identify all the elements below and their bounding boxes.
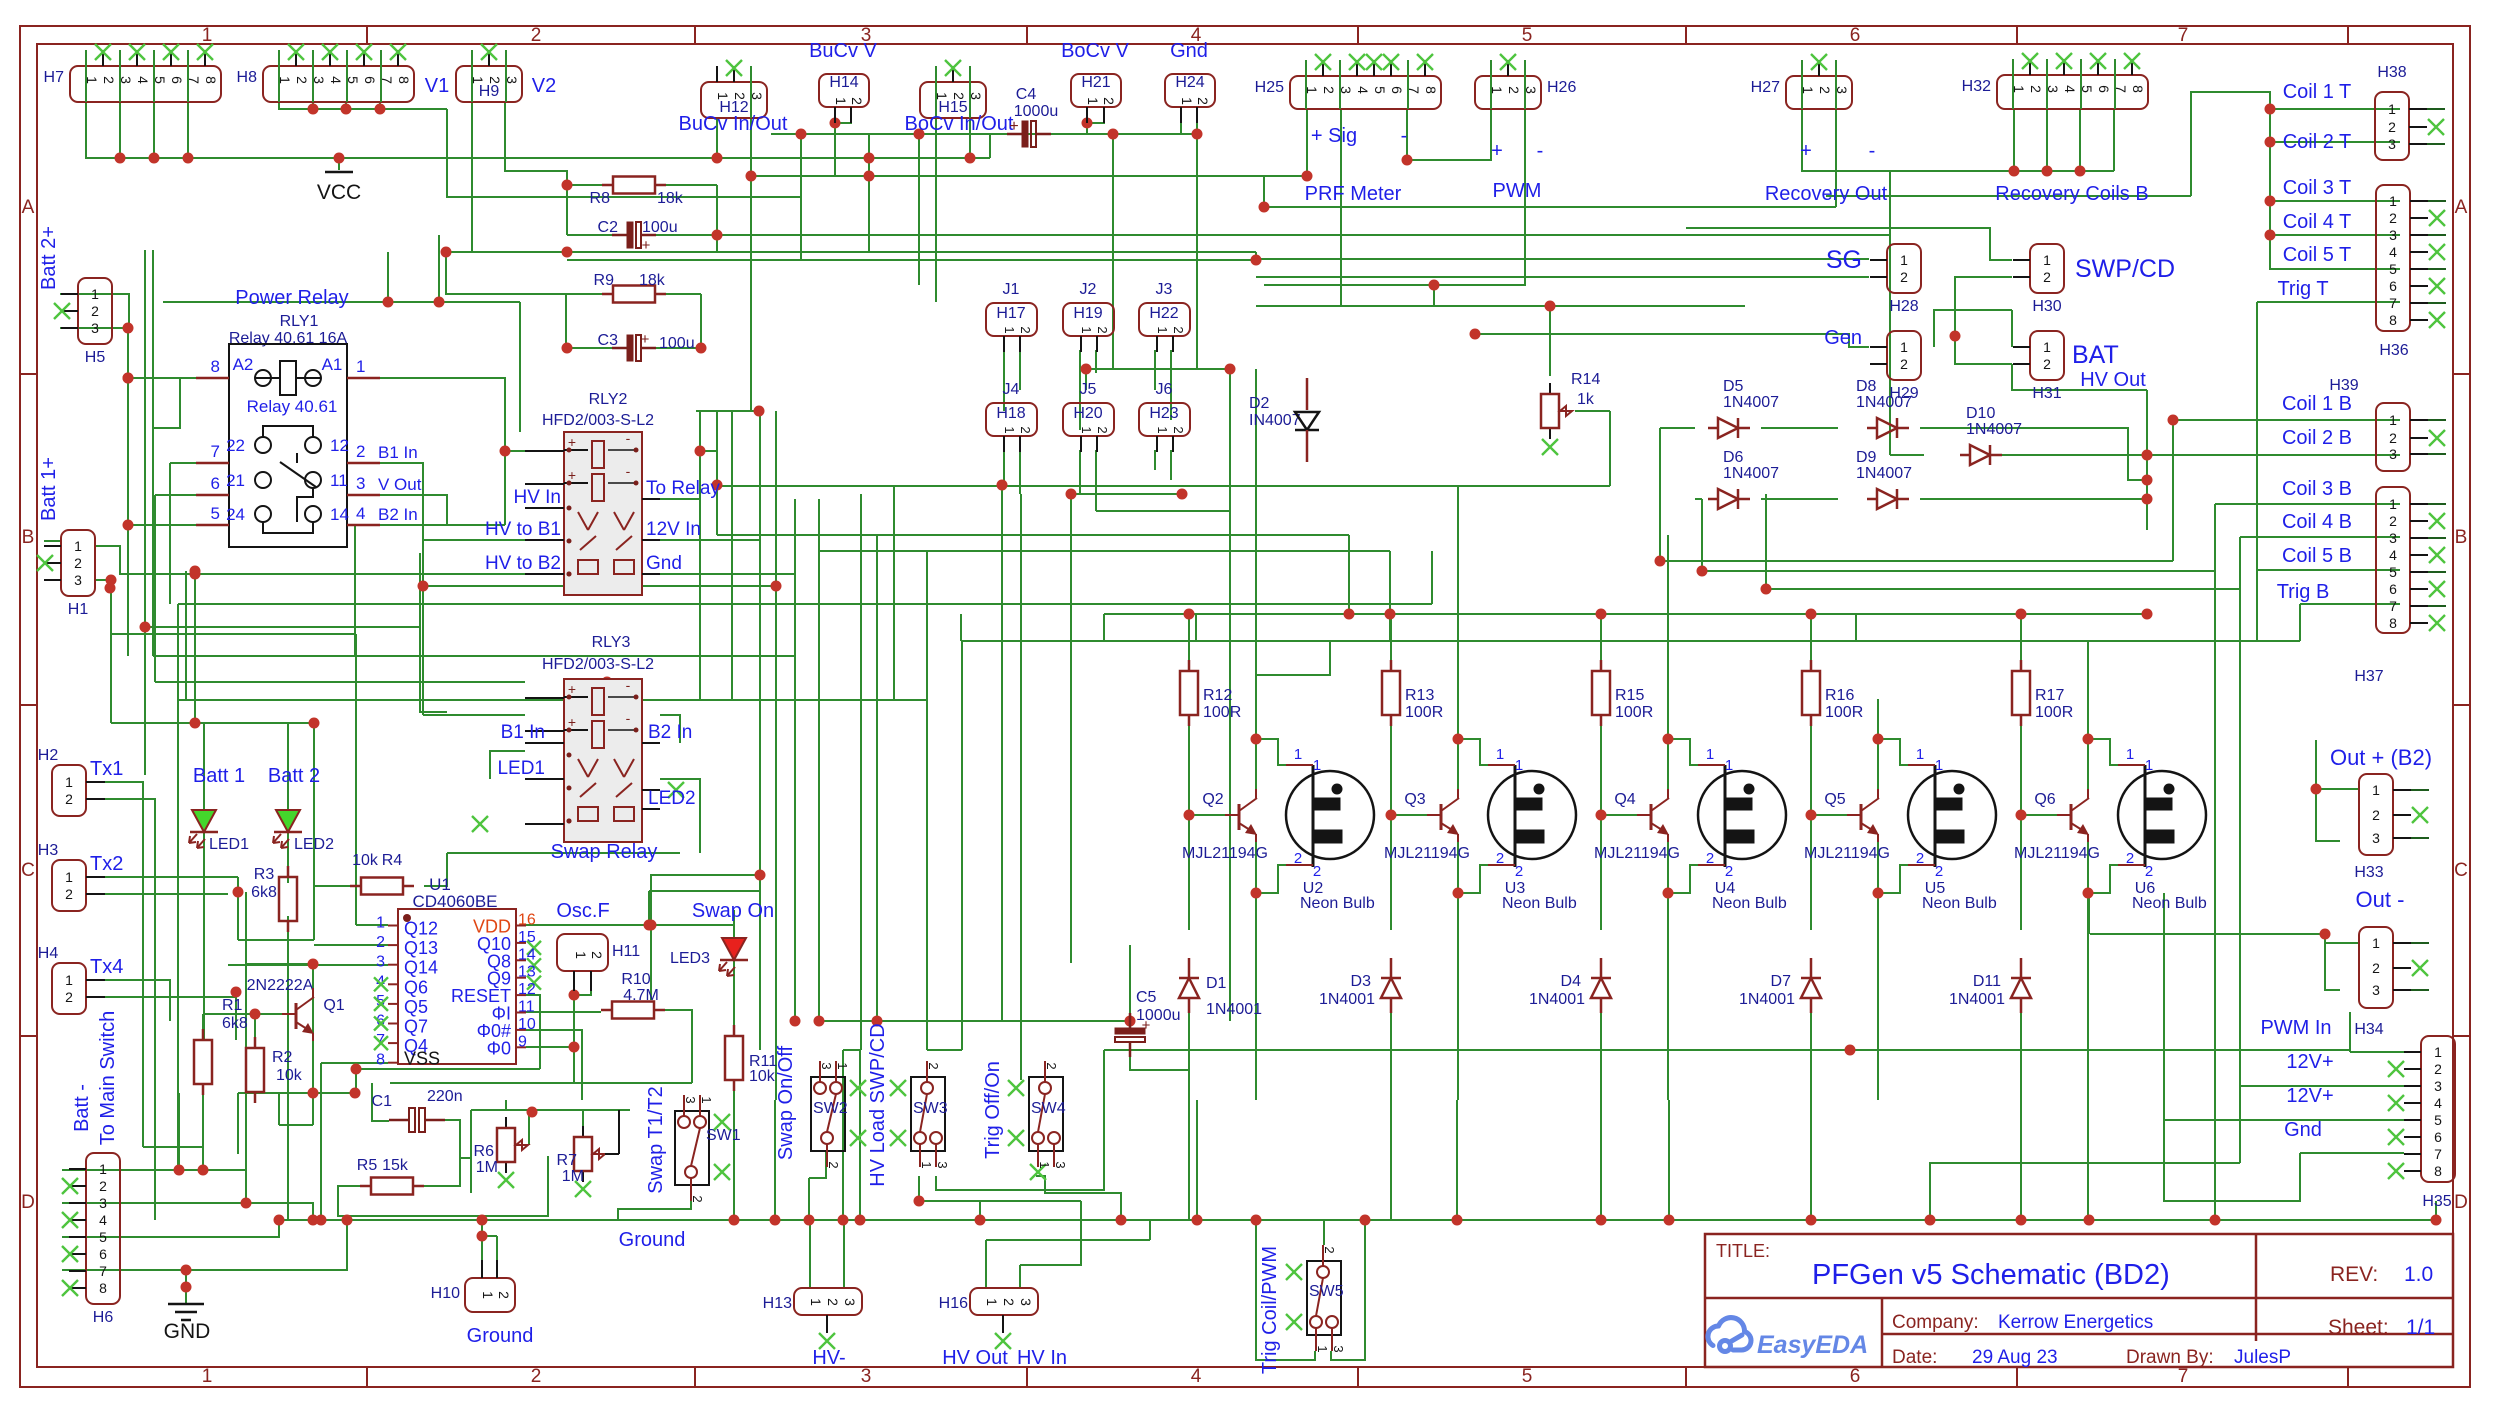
svg-text:Neon Bulb: Neon Bulb xyxy=(1300,895,1375,912)
svg-text:H2: H2 xyxy=(38,747,59,764)
svg-text:1: 1 xyxy=(1725,757,1733,774)
no-connect flag xyxy=(62,1178,78,1194)
wire xyxy=(1264,284,1526,286)
no-connect flag xyxy=(575,1181,591,1197)
wire xyxy=(235,992,237,1040)
svg-text:3: 3 xyxy=(861,1366,872,1387)
junction xyxy=(316,1215,327,1226)
wire H27 pin1 xyxy=(1802,109,1890,171)
wire xyxy=(423,585,776,587)
svg-text:3: 3 xyxy=(376,954,385,971)
svg-text:Kerrow Energetics: Kerrow Energetics xyxy=(1998,1312,2153,1333)
svg-text:3: 3 xyxy=(2389,530,2397,546)
svg-text:29 Aug 23: 29 Aug 23 xyxy=(1972,1347,2058,1368)
RLY2 pin xyxy=(525,450,564,452)
svg-text:2: 2 xyxy=(825,1298,841,1306)
connector H7 xyxy=(70,66,221,102)
svg-text:6: 6 xyxy=(211,474,220,493)
svg-text:7: 7 xyxy=(2434,1146,2442,1162)
capacitor xyxy=(389,1119,409,1122)
svg-text:HV In: HV In xyxy=(513,487,561,508)
svg-text:R4: R4 xyxy=(382,852,403,869)
svg-text:PWM In: PWM In xyxy=(2260,1017,2331,1039)
no-connect flag xyxy=(1383,54,1399,70)
svg-text:2: 2 xyxy=(2372,960,2380,976)
svg-text:8: 8 xyxy=(203,76,219,84)
svg-text:H5: H5 xyxy=(85,349,106,366)
svg-text:1: 1 xyxy=(2126,746,2134,763)
wire xyxy=(1849,276,1869,278)
RLY3 pin xyxy=(525,778,564,780)
svg-text:HV Out: HV Out xyxy=(2080,369,2146,391)
svg-text:1: 1 xyxy=(1155,426,1170,433)
wire xyxy=(794,499,796,574)
wire xyxy=(422,586,424,715)
wire xyxy=(1993,454,2147,456)
wire xyxy=(105,799,155,1220)
wire BuCv In/Out bus xyxy=(771,133,1197,135)
wire R bottom xyxy=(2020,726,2022,930)
junction xyxy=(1302,171,1313,182)
junction xyxy=(1251,734,1262,745)
junction xyxy=(1192,1215,1203,1226)
wire R11 bottom xyxy=(733,1080,735,1220)
svg-text:4: 4 xyxy=(2434,1095,2442,1111)
wire H6 pin1 xyxy=(62,1169,179,1171)
svg-text:R7: R7 xyxy=(557,1152,578,1169)
wire xyxy=(1855,614,1857,641)
diode xyxy=(1867,427,1877,430)
wire R9 left xyxy=(566,293,602,295)
wire xyxy=(246,963,313,965)
svg-text:100u: 100u xyxy=(642,219,678,236)
junction xyxy=(729,1215,740,1226)
svg-text:2: 2 xyxy=(2028,85,2044,93)
svg-text:3: 3 xyxy=(935,1161,950,1168)
wire xyxy=(238,1092,356,1094)
wire xyxy=(447,852,680,854)
wire xyxy=(1196,134,1198,369)
svg-text:1: 1 xyxy=(1294,746,1302,763)
junction xyxy=(2083,734,2094,745)
svg-text:REV:: REV: xyxy=(2330,1263,2378,1286)
svg-text:3: 3 xyxy=(2372,982,2380,998)
connector H30 xyxy=(2030,244,2064,293)
svg-text:8: 8 xyxy=(2389,615,2397,631)
wire xyxy=(1196,1100,1198,1220)
junction xyxy=(855,1215,866,1226)
ground symbol GND xyxy=(168,1303,204,1306)
wire R5 left xyxy=(338,1156,548,1216)
svg-text:Coil 4 T: Coil 4 T xyxy=(2283,211,2352,233)
svg-text:H34: H34 xyxy=(2354,1021,2383,1038)
connector H37 xyxy=(2376,487,2410,633)
no-connect flag xyxy=(481,44,497,60)
wire xyxy=(717,534,877,536)
svg-text:4: 4 xyxy=(356,504,365,523)
wire xyxy=(177,604,179,1170)
svg-text:1: 1 xyxy=(1079,326,1094,333)
junction xyxy=(123,373,134,384)
svg-text:PFGen v5 Schematic (BD2): PFGen v5 Schematic (BD2) xyxy=(1812,1259,2170,1291)
wire xyxy=(1255,252,1257,260)
junction xyxy=(562,247,573,258)
wire base xyxy=(1601,814,1637,816)
svg-text:1N4007: 1N4007 xyxy=(1723,465,1779,482)
wire D bottom xyxy=(1188,1010,1190,1220)
wire xyxy=(894,699,927,701)
wire xyxy=(1761,498,1838,500)
svg-text:4: 4 xyxy=(2062,85,2078,93)
junction xyxy=(2084,1215,2095,1226)
junction xyxy=(1950,331,1961,342)
svg-text:2: 2 xyxy=(1171,326,1186,333)
svg-text:HV-: HV- xyxy=(812,1347,845,1369)
resistor xyxy=(1188,660,1191,671)
diode xyxy=(1867,498,1877,501)
connector H21 xyxy=(1071,74,1121,107)
svg-text:3: 3 xyxy=(2372,830,2380,846)
wire base xyxy=(1811,814,1847,816)
wire xyxy=(1877,960,1879,1100)
svg-text:2: 2 xyxy=(65,989,73,1005)
wire LED3 top xyxy=(733,910,735,938)
svg-text:2: 2 xyxy=(2043,356,2051,372)
neon bulb xyxy=(2118,771,2206,859)
svg-text:A1: A1 xyxy=(322,355,343,374)
junction xyxy=(914,129,925,140)
wire SW5 pin3 xyxy=(1331,1220,1365,1360)
wire xyxy=(567,259,1256,261)
junction xyxy=(712,230,723,241)
svg-text:6: 6 xyxy=(2389,278,2397,294)
wire xyxy=(1889,228,1891,455)
wire xyxy=(1229,511,1231,1021)
wire emitter xyxy=(2087,842,2089,960)
svg-text:H16: H16 xyxy=(939,1295,968,1312)
connector H35 xyxy=(2421,1036,2455,1182)
svg-text:1: 1 xyxy=(1155,326,1170,333)
wire R6 top xyxy=(505,1100,507,1111)
RLY3 pin xyxy=(525,730,564,732)
svg-text:1: 1 xyxy=(984,1298,1000,1306)
wire xyxy=(1348,535,1350,614)
svg-text:4.7M: 4.7M xyxy=(623,987,659,1004)
wire U1 pin3 xyxy=(338,964,388,966)
junction xyxy=(1116,1215,1127,1226)
svg-text:18k: 18k xyxy=(639,272,666,289)
connector H31 xyxy=(2030,331,2064,380)
wire phi0# xyxy=(526,1030,582,1100)
wire xyxy=(185,571,187,634)
LED xyxy=(192,810,216,832)
svg-text:1: 1 xyxy=(808,1298,824,1306)
wire xyxy=(313,723,315,940)
svg-text:Q14: Q14 xyxy=(404,958,438,978)
svg-text:HV to B1: HV to B1 xyxy=(485,519,561,540)
svg-text:9: 9 xyxy=(518,1033,527,1050)
junction xyxy=(1663,888,1674,899)
wire R4 left xyxy=(314,885,350,887)
no-connect flag xyxy=(1366,54,1382,70)
junction xyxy=(830,118,841,129)
svg-text:A: A xyxy=(22,197,35,218)
svg-text:RLY2: RLY2 xyxy=(589,391,628,408)
no-connect flag xyxy=(890,1080,906,1096)
wire xyxy=(111,633,356,635)
diode xyxy=(1591,977,1611,980)
svg-text:R10: R10 xyxy=(621,971,650,988)
wire xyxy=(312,102,314,109)
wire base xyxy=(2021,814,2057,816)
svg-text:C3: C3 xyxy=(598,332,619,349)
wire xyxy=(312,1093,314,1125)
no-connect flag xyxy=(2388,1163,2404,1179)
wire R14 top xyxy=(1549,306,1551,376)
wire H1 pin3 xyxy=(95,579,111,581)
no-connect flag xyxy=(1008,1080,1024,1096)
wire R8 left xyxy=(567,184,602,186)
wire xyxy=(2113,109,2115,171)
svg-text:1: 1 xyxy=(1496,746,1504,763)
svg-text:LED2: LED2 xyxy=(648,788,696,809)
junction xyxy=(477,1231,488,1242)
no-connect flag xyxy=(2429,244,2445,260)
wire H8 bus xyxy=(279,102,447,109)
junction xyxy=(2083,888,2094,899)
svg-text:D: D xyxy=(21,1192,35,1213)
no-connect flag xyxy=(2056,53,2072,69)
svg-text:-: - xyxy=(626,677,631,693)
svg-text:1: 1 xyxy=(1515,757,1523,774)
wire swap on xyxy=(651,924,734,926)
wire xyxy=(187,102,189,158)
wire xyxy=(2087,1100,2089,1220)
svg-text:Q4: Q4 xyxy=(1614,791,1635,808)
diode xyxy=(2011,977,2031,980)
wire xyxy=(279,1124,313,1126)
svg-text:D6: D6 xyxy=(1723,449,1744,466)
wire Tx4 xyxy=(105,980,170,1021)
svg-text:C: C xyxy=(21,860,35,881)
wire LED feed xyxy=(195,722,314,724)
svg-text:2: 2 xyxy=(356,442,365,461)
svg-text:2: 2 xyxy=(1313,863,1321,880)
wire xyxy=(44,540,62,542)
junction xyxy=(1453,888,1464,899)
wire xyxy=(2011,310,2013,347)
wire xyxy=(859,1050,861,1220)
no-connect flag xyxy=(2429,278,2445,294)
junction xyxy=(1925,1215,1936,1226)
connector H8 xyxy=(263,66,414,102)
no-connect flag xyxy=(714,1114,730,1130)
svg-text:6: 6 xyxy=(2096,85,2112,93)
svg-text:B: B xyxy=(2455,527,2468,548)
wire xyxy=(1766,588,2240,590)
svg-text:100R: 100R xyxy=(1203,704,1241,721)
junction xyxy=(864,171,875,182)
svg-text:H33: H33 xyxy=(2354,864,2383,881)
svg-text:Coil 2 T: Coil 2 T xyxy=(2283,131,2352,153)
svg-text:R16: R16 xyxy=(1825,687,1854,704)
junction xyxy=(477,1215,488,1226)
svg-text:12V In: 12V In xyxy=(646,519,701,540)
svg-text:RLY3: RLY3 xyxy=(592,634,631,651)
wire xyxy=(1095,350,1097,373)
wire H6 pin7 xyxy=(62,1269,186,1271)
wire xyxy=(105,996,236,998)
svg-text:1: 1 xyxy=(835,1062,850,1069)
svg-text:1: 1 xyxy=(480,1291,496,1299)
svg-text:Neon Bulb: Neon Bulb xyxy=(1712,895,1787,912)
svg-text:+: + xyxy=(642,237,651,254)
no-connect flag xyxy=(2429,312,2445,328)
svg-text:Swap On/Off: Swap On/Off xyxy=(775,1045,797,1160)
wire R top xyxy=(1600,614,1602,662)
svg-text:D11: D11 xyxy=(1973,973,2001,990)
no-connect flag xyxy=(668,782,684,798)
resistor xyxy=(254,1037,257,1048)
wire xyxy=(446,251,1256,253)
junction xyxy=(755,870,766,881)
wire H14 pin2 xyxy=(835,107,851,123)
svg-text:3: 3 xyxy=(683,1096,698,1103)
junction xyxy=(334,153,345,164)
wire bulb pin1 xyxy=(1668,739,1698,765)
svg-text:LED3: LED3 xyxy=(670,950,710,967)
LED xyxy=(276,810,300,832)
wire xyxy=(2239,589,2241,1163)
wire xyxy=(246,1203,313,1220)
wire xyxy=(296,1092,313,1094)
neon bulb xyxy=(1698,771,1786,859)
wire xyxy=(1810,1100,1812,1220)
potentiometer xyxy=(582,1126,584,1137)
svg-text:IN4007: IN4007 xyxy=(1249,412,1301,429)
svg-text:1: 1 xyxy=(1916,746,1924,763)
svg-text:Q6: Q6 xyxy=(404,977,428,997)
wire xyxy=(1930,1163,2240,1220)
junction xyxy=(1177,489,1188,500)
wire D bottom xyxy=(1810,1010,1812,1220)
wire xyxy=(186,1220,347,1270)
wire xyxy=(355,634,357,925)
junction xyxy=(1873,734,1884,745)
svg-text:H18: H18 xyxy=(996,405,1025,422)
svg-text:1: 1 xyxy=(65,869,73,885)
svg-text:15k: 15k xyxy=(382,1157,409,1174)
resistor xyxy=(602,184,613,187)
junction xyxy=(1125,1016,1136,1027)
svg-text:D8: D8 xyxy=(1856,378,1877,395)
wire xyxy=(1660,560,2173,562)
wire xyxy=(774,1100,776,1220)
RLY3 pin xyxy=(642,742,660,744)
junction xyxy=(1344,609,1355,620)
wire xyxy=(2163,893,2165,940)
wire xyxy=(2013,109,2015,171)
no-connect flag xyxy=(995,1333,1011,1349)
wire xyxy=(203,723,205,812)
junction xyxy=(1108,129,1119,140)
svg-text:5: 5 xyxy=(1372,86,1388,94)
junction xyxy=(838,1215,849,1226)
svg-text:R6: R6 xyxy=(474,1143,495,1160)
wire xyxy=(1955,277,2012,336)
wire RLY3 coil xyxy=(155,681,525,683)
wire coil T bus xyxy=(2191,92,2400,269)
wire xyxy=(178,1093,180,1170)
svg-text:1000u: 1000u xyxy=(1014,103,1059,120)
svg-text:Tx4: Tx4 xyxy=(90,956,123,978)
no-connect flag xyxy=(472,816,488,832)
wire xyxy=(1086,368,1230,370)
svg-text:TITLE:: TITLE: xyxy=(1716,1241,1770,1261)
wire xyxy=(345,102,347,109)
junction xyxy=(872,1016,883,1027)
svg-text:1: 1 xyxy=(1079,426,1094,433)
svg-text:2: 2 xyxy=(101,76,117,84)
svg-text:1: 1 xyxy=(2434,1044,2442,1060)
switch xyxy=(1029,1077,1063,1151)
svg-text:2: 2 xyxy=(531,25,542,46)
wire xyxy=(960,614,962,641)
wire R top xyxy=(1810,614,1812,662)
wire C5 top xyxy=(1129,945,1131,1026)
no-connect flag xyxy=(390,44,406,60)
junction xyxy=(434,297,445,308)
svg-text:4: 4 xyxy=(1355,86,1371,94)
svg-text:R15: R15 xyxy=(1615,687,1644,704)
svg-text:2: 2 xyxy=(2145,863,2153,880)
RLY2 pin xyxy=(642,573,660,575)
transistor xyxy=(2057,814,2071,816)
wire xyxy=(1877,699,1879,739)
junction xyxy=(602,677,613,688)
wire H21 pin1 xyxy=(1086,123,1088,134)
svg-text:Swap Relay: Swap Relay xyxy=(551,841,658,863)
junction xyxy=(500,446,511,457)
svg-text:5: 5 xyxy=(2434,1112,2442,1128)
no-connect flag xyxy=(1286,1314,1302,1330)
wire RLY2 To Relay xyxy=(660,451,700,499)
svg-text:B1 In: B1 In xyxy=(501,722,545,743)
wire D bottom xyxy=(1390,1010,1392,1220)
wire xyxy=(604,1151,606,1153)
svg-text:SWP/CD: SWP/CD xyxy=(2075,255,2175,283)
junction xyxy=(351,1064,362,1075)
svg-text:2: 2 xyxy=(1095,426,1110,433)
svg-text:J4: J4 xyxy=(1003,381,1020,398)
connector H12 xyxy=(701,82,767,118)
wire H6 pin3 xyxy=(62,1202,246,1204)
wire HV to B2 feed xyxy=(95,546,525,574)
no-connect flag xyxy=(129,44,145,60)
svg-text:+: + xyxy=(1800,140,1812,162)
svg-text:VSS: VSS xyxy=(404,1049,440,1069)
svg-text:2: 2 xyxy=(496,1291,512,1299)
wire xyxy=(471,1109,506,1111)
connector H24 xyxy=(1165,74,1215,107)
wire SWP/CD xyxy=(1686,228,2012,260)
svg-text:+ Sig: + Sig xyxy=(1311,125,1357,147)
wire xyxy=(2214,504,2216,571)
wire xyxy=(254,1014,256,1037)
svg-text:Batt 2: Batt 2 xyxy=(268,765,320,787)
svg-text:8: 8 xyxy=(2130,85,2146,93)
wire GND stub xyxy=(185,1270,187,1304)
